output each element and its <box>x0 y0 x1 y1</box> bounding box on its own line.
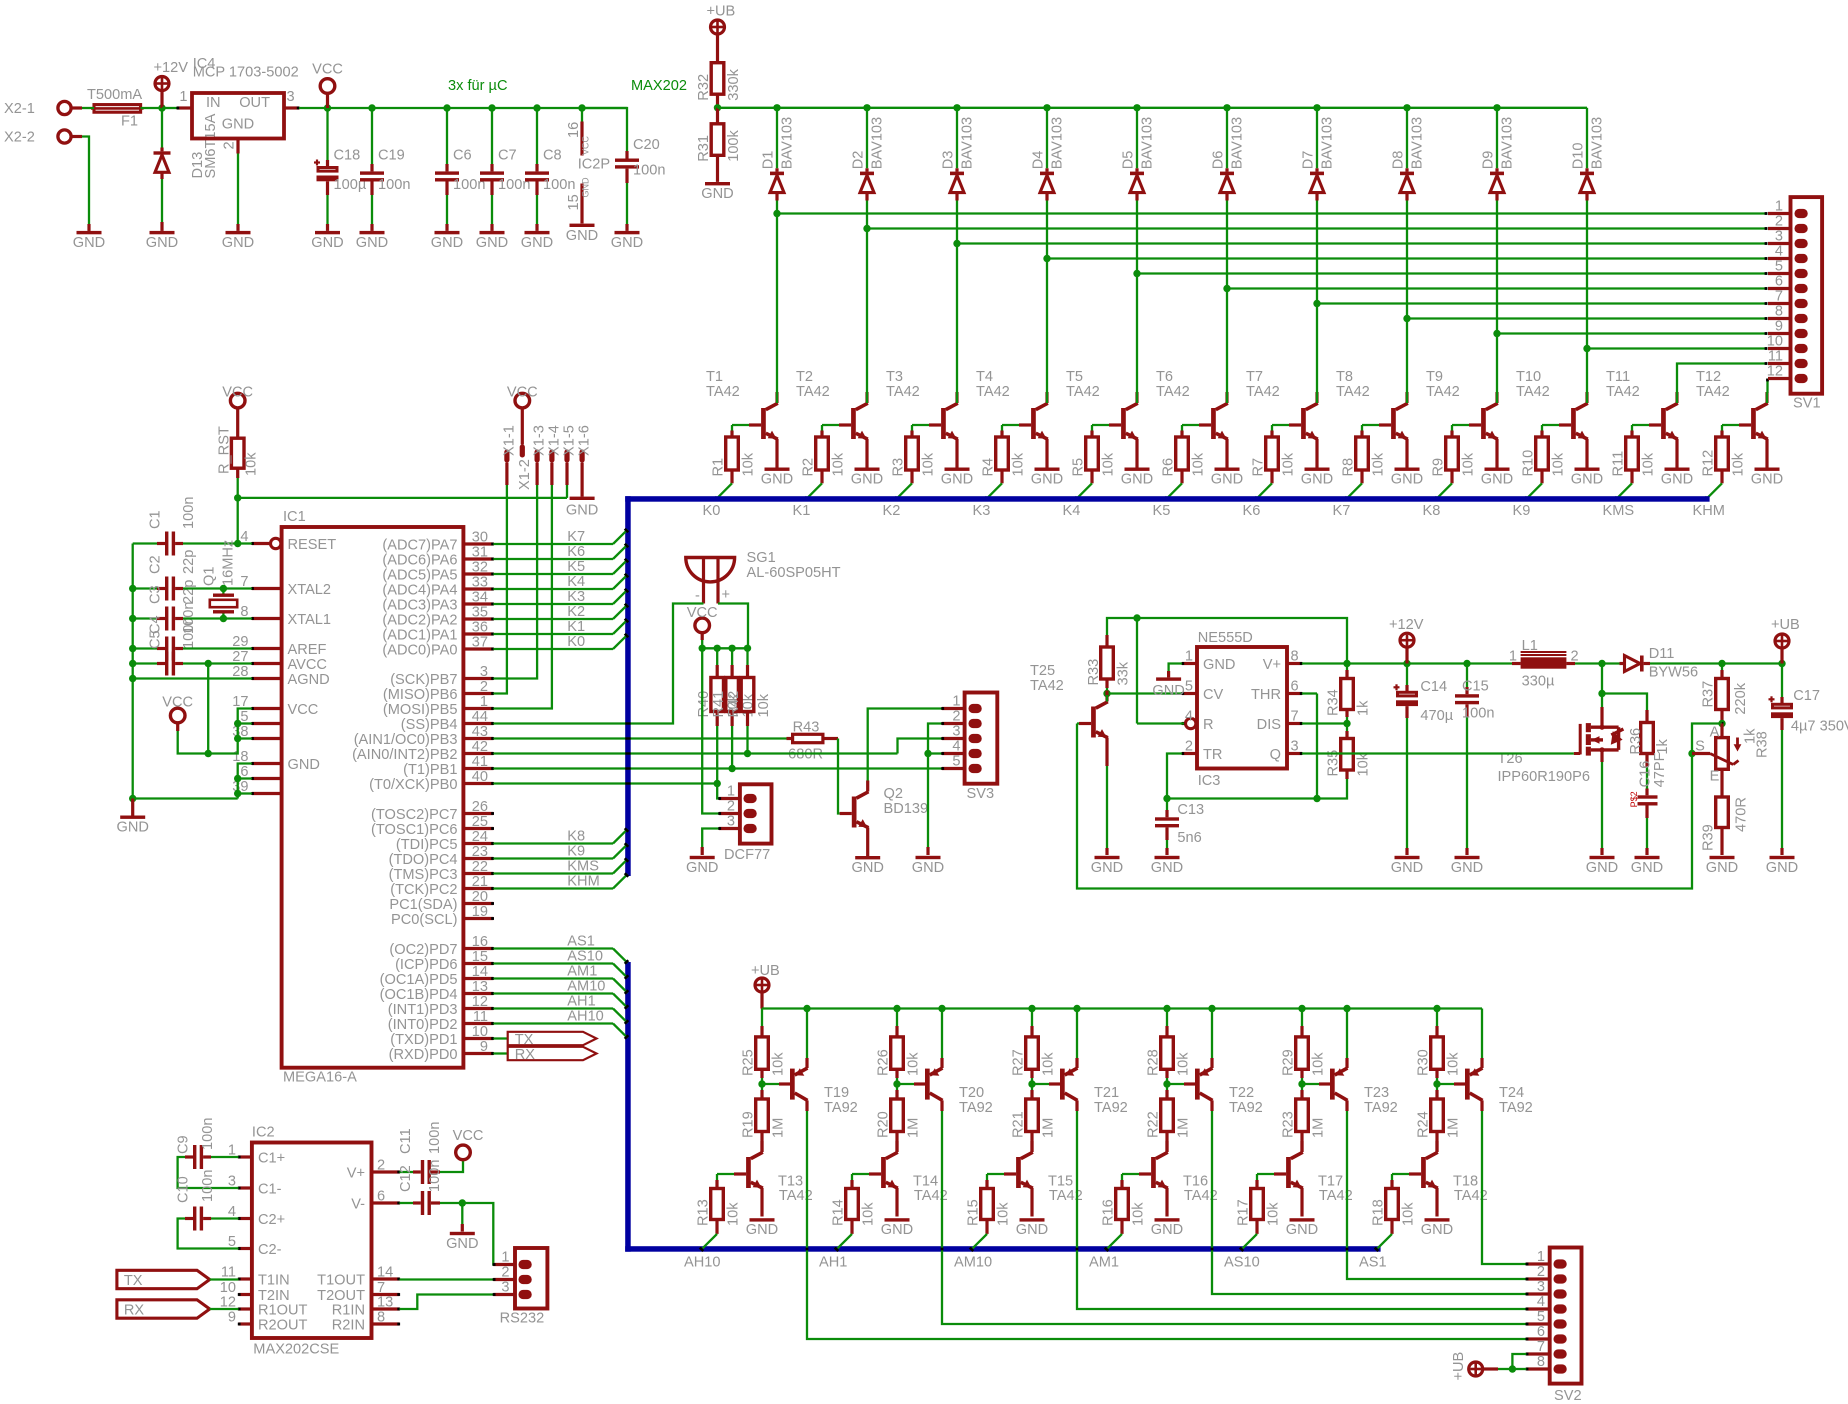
svg-text:GND: GND <box>288 757 320 773</box>
svg-text:R1: R1 <box>711 458 727 477</box>
resistor R_RST 10k <box>217 385 260 479</box>
bus A vertical <box>625 962 631 1252</box>
svg-text:F1: F1 <box>121 114 138 130</box>
svg-text:K0: K0 <box>567 634 585 650</box>
svg-text:5: 5 <box>1185 679 1193 695</box>
wire T25 emitter to GND <box>1106 766 1108 855</box>
svg-text:GND: GND <box>1481 471 1513 487</box>
svg-text:6: 6 <box>377 1189 385 1205</box>
wire R6 to bus node K5 <box>1164 483 1182 501</box>
trimmer R38 1k <box>1692 724 1771 785</box>
ground GND T7 <box>1301 468 1333 488</box>
svg-text:K4: K4 <box>1063 503 1081 519</box>
svg-text:K8: K8 <box>1423 503 1441 519</box>
svg-text:35: 35 <box>472 605 488 621</box>
svg-text:(AIN0/INT2)PB2: (AIN0/INT2)PB2 <box>352 747 457 763</box>
svg-text:(ADC4)PA4: (ADC4)PA4 <box>382 582 457 598</box>
svg-text:K2: K2 <box>883 503 901 519</box>
svg-text:C8: C8 <box>543 148 562 164</box>
svg-text:BAV103: BAV103 <box>780 117 796 169</box>
svg-text:10k: 10k <box>740 452 756 476</box>
wire THR pin6 <box>1302 694 1317 799</box>
svg-text:R1OUT: R1OUT <box>258 1302 308 1318</box>
svg-text:47PF: 47PF <box>1652 752 1668 787</box>
svg-text:5n6: 5n6 <box>1177 830 1201 846</box>
svg-text:13: 13 <box>472 979 488 995</box>
svg-text:30: 30 <box>472 530 488 546</box>
connector pin X1-3 <box>532 425 548 485</box>
resistor R26 10k <box>876 1009 922 1085</box>
svg-text:R32: R32 <box>696 74 712 101</box>
svg-text:GND: GND <box>146 235 178 251</box>
wire diode D5 column to K row and T5 collector <box>1133 201 1140 393</box>
svg-text:IC2P: IC2P <box>578 157 610 173</box>
svg-text:TA92: TA92 <box>1094 1100 1128 1116</box>
supply +UB at SV2 <box>1451 1352 1516 1381</box>
node base junction T19 <box>758 1080 779 1087</box>
svg-text:K2: K2 <box>567 604 585 620</box>
resistor R34 1k <box>1326 664 1372 728</box>
svg-text:R25: R25 <box>741 1049 757 1076</box>
svg-text:9: 9 <box>480 1039 488 1055</box>
svg-text:SM6T15A: SM6T15A <box>203 113 219 178</box>
svg-text:6: 6 <box>1537 1324 1545 1340</box>
svg-text:GND: GND <box>431 235 463 251</box>
svg-text:GND: GND <box>1586 860 1618 876</box>
svg-text:GND: GND <box>222 117 254 133</box>
ground GND C13 <box>1151 856 1183 876</box>
wire diode D1 column to K row and T1 collector <box>773 201 780 393</box>
ground GND D13 <box>146 231 178 251</box>
svg-text:10k: 10k <box>1550 452 1566 476</box>
wire AS1 PD7 to bus <box>493 949 629 965</box>
wire V- node to GND <box>461 1203 463 1232</box>
wire R9 to bus node K8 <box>1434 483 1452 501</box>
svg-text:T8: T8 <box>1336 369 1353 385</box>
wire diode D9 column to K row and T9 collector <box>1493 201 1500 393</box>
supply +UB top <box>707 4 736 63</box>
wire X1-3 to PB7 <box>493 485 537 679</box>
svg-text:100n: 100n <box>1462 706 1494 722</box>
wire to +UB and C17 <box>1718 660 1785 667</box>
wire diode D10 column to K row and T10 collector <box>1583 201 1590 393</box>
svg-text:T21: T21 <box>1094 1085 1119 1101</box>
ground GND left rail <box>116 799 148 836</box>
capacitor C6 100n <box>435 108 485 231</box>
capacitor C8 100n <box>525 108 575 231</box>
svg-text:10k: 10k <box>920 452 936 476</box>
svg-text:VCC: VCC <box>581 135 591 155</box>
svg-text:C7: C7 <box>498 148 517 164</box>
wire SG1 minus to PB4 <box>493 604 703 724</box>
svg-text:RX: RX <box>515 1047 536 1063</box>
svg-text:GND: GND <box>881 1222 913 1238</box>
capacitor C15 100n <box>1455 664 1494 856</box>
svg-text:R38: R38 <box>1755 731 1771 758</box>
wire SV3 pin2 and pin4 to GND <box>924 724 942 856</box>
svg-text:GND: GND <box>1151 1222 1183 1238</box>
wire PB0 row <box>493 782 717 784</box>
svg-text:-: - <box>695 588 700 604</box>
svg-text:25: 25 <box>472 814 488 830</box>
transistor T20 TA92 <box>914 1058 993 1116</box>
svg-text:GND: GND <box>73 235 105 251</box>
wire XTAL2 row <box>183 585 252 592</box>
svg-text:220k: 220k <box>1733 682 1749 714</box>
capacitor C14 470u <box>1394 664 1454 856</box>
wire R12 to bus node KHM <box>1704 483 1722 501</box>
svg-text:SV3: SV3 <box>967 786 995 802</box>
svg-text:14: 14 <box>377 1265 393 1281</box>
svg-text:(TOSC1)PC6: (TOSC1)PC6 <box>371 822 458 838</box>
node K9 label <box>567 844 585 860</box>
diode D8 BAV103 <box>1391 108 1426 201</box>
svg-text:GND: GND <box>746 1222 778 1238</box>
svg-text:AM1: AM1 <box>1089 1255 1119 1271</box>
svg-text:RX: RX <box>124 1303 145 1319</box>
svg-text:GND: GND <box>1766 860 1798 876</box>
wire R17 to bus node AS10 <box>1239 1234 1257 1252</box>
wire R8 to bus node K7 <box>1344 483 1362 501</box>
node K5 label <box>567 559 585 575</box>
svg-text:C13: C13 <box>1177 802 1204 818</box>
ground GND T13 <box>746 1218 778 1238</box>
svg-text:K3: K3 <box>567 589 585 605</box>
svg-text:T20: T20 <box>959 1085 984 1101</box>
svg-text:GND: GND <box>116 820 148 836</box>
wire T6 collector stub <box>1226 392 1228 403</box>
wire R2 to bus node K1 <box>804 483 822 501</box>
ground GND C18 <box>311 231 343 251</box>
wire KHM to bus <box>493 872 629 888</box>
wire IC3 GND pin1 <box>1169 664 1182 678</box>
svg-text:AREF: AREF <box>288 642 327 658</box>
svg-text:(ADC3)PA3: (ADC3)PA3 <box>382 597 457 613</box>
wire K6 PA6 to bus <box>493 543 629 559</box>
svg-text:VCC: VCC <box>507 385 538 401</box>
svg-text:2: 2 <box>480 679 488 695</box>
wire GND rail left of IC1 <box>129 544 238 803</box>
wire V- node to RS232 pin1 <box>462 1203 515 1265</box>
node KHM label <box>1693 503 1725 519</box>
svg-text:CV: CV <box>1203 687 1224 703</box>
ground GND T9 <box>1481 468 1513 488</box>
transistor T2 TA42 <box>796 369 868 468</box>
wire AM1 PD5 to bus <box>493 979 629 995</box>
wire drain node to R36 <box>1602 694 1647 711</box>
svg-text:10k: 10k <box>1190 452 1206 476</box>
svg-text:2: 2 <box>1185 739 1193 755</box>
svg-text:10: 10 <box>1767 334 1783 350</box>
wire R16 to bus node AM1 <box>1104 1234 1122 1252</box>
capacitor C2 22p <box>133 550 197 601</box>
svg-text:7: 7 <box>1291 709 1299 725</box>
svg-text:100k: 100k <box>726 129 742 161</box>
resistor R39 470R <box>1701 769 1750 855</box>
label MAX202 <box>631 78 687 94</box>
capacitor C9 100n <box>176 1118 239 1169</box>
svg-text:AS1: AS1 <box>567 934 595 950</box>
wire VCC rail with junctions <box>299 104 627 111</box>
svg-text:10k: 10k <box>905 1052 921 1076</box>
svg-text:R33: R33 <box>1086 659 1102 686</box>
resistor R5 10k <box>1071 425 1117 483</box>
svg-text:470µ: 470µ <box>1420 708 1453 724</box>
svg-text:3: 3 <box>1291 739 1299 755</box>
svg-text:3: 3 <box>727 814 735 830</box>
svg-text:(RXD)PD0: (RXD)PD0 <box>389 1047 458 1063</box>
wire T5 collector stub <box>1136 392 1138 403</box>
svg-text:10k: 10k <box>725 1202 741 1226</box>
wire T8 collector stub <box>1406 392 1408 403</box>
svg-text:(ADC1)PA1: (ADC1)PA1 <box>382 627 457 643</box>
svg-text:PC0(SCL): PC0(SCL) <box>391 912 458 928</box>
svg-text:3: 3 <box>501 1280 509 1296</box>
svg-text:T4: T4 <box>976 369 993 385</box>
ground GND T3 <box>941 468 973 488</box>
wire T19 emitter to +UB rail <box>806 1009 808 1059</box>
svg-text:BD139: BD139 <box>884 801 929 817</box>
ground GND C20 <box>611 231 643 251</box>
svg-text:X1-4: X1-4 <box>546 425 562 456</box>
svg-text:K5: K5 <box>567 559 585 575</box>
svg-text:Q2: Q2 <box>884 786 903 802</box>
svg-text:4µ7 350V: 4µ7 350V <box>1791 719 1848 735</box>
svg-text:R5: R5 <box>1071 458 1087 477</box>
transistor T26 IPP60R190P6 MOSFET <box>1498 694 1624 856</box>
svg-text:TA42: TA42 <box>1066 384 1100 400</box>
ground GND T4 <box>1031 468 1063 488</box>
svg-text:TA42: TA42 <box>1606 384 1640 400</box>
svg-text:TA42: TA42 <box>1696 384 1730 400</box>
svg-text:1M: 1M <box>1175 1118 1191 1138</box>
resistor R21 1M <box>1011 1084 1057 1152</box>
wire T9 collector stub <box>1496 392 1498 403</box>
connector pin X2-2 <box>4 130 82 146</box>
wire DCF77 pin3 to GND <box>702 829 719 856</box>
svg-text:R16: R16 <box>1101 1199 1117 1226</box>
svg-text:100n: 100n <box>427 1160 443 1192</box>
svg-text:TA42: TA42 <box>1246 384 1280 400</box>
svg-text:23: 23 <box>472 844 488 860</box>
resistor R18 10k <box>1371 1174 1417 1234</box>
svg-text:GND: GND <box>1751 471 1783 487</box>
flag TX to IC2 <box>117 1270 238 1289</box>
svg-text:10k: 10k <box>756 693 772 717</box>
svg-text:C10: C10 <box>176 1176 192 1203</box>
svg-text:C6: C6 <box>453 148 472 164</box>
resistor R22 1M <box>1146 1084 1192 1152</box>
svg-text:8: 8 <box>1775 304 1783 320</box>
ground GND T12 <box>1751 468 1783 488</box>
svg-text:TX: TX <box>515 1032 534 1048</box>
svg-text:5: 5 <box>952 754 960 770</box>
wire VCC net to IC1 pins 17 5 38 and AVCC <box>178 664 252 758</box>
svg-text:43: 43 <box>472 724 488 740</box>
resistor R24 1M <box>1416 1084 1462 1152</box>
svg-text:X1-5: X1-5 <box>562 425 578 456</box>
svg-text:1: 1 <box>480 694 488 710</box>
diode D10 BAV103 <box>1571 108 1606 201</box>
wire T21 emitter to +UB rail <box>1076 1009 1078 1059</box>
svg-text:GND: GND <box>222 235 254 251</box>
node KMS label <box>1603 503 1635 519</box>
ground GND T25 <box>1091 856 1123 876</box>
svg-text:C20: C20 <box>633 137 660 153</box>
wire SV1 row 7 <box>1317 302 1768 305</box>
resistor R8 10k <box>1341 425 1387 483</box>
svg-text:TA92: TA92 <box>824 1100 858 1116</box>
svg-text:26: 26 <box>472 799 488 815</box>
svg-text:R13: R13 <box>696 1199 712 1226</box>
svg-text:GND: GND <box>566 503 598 519</box>
wire C10 to C2- pin5 <box>178 1219 239 1249</box>
svg-text:100n: 100n <box>200 1170 216 1202</box>
wire feedback rail T25 base <box>1077 724 1692 889</box>
ground GND IC2 <box>446 1232 478 1252</box>
fuse F1 T500mA <box>87 87 144 130</box>
svg-text:T6: T6 <box>1156 369 1173 385</box>
svg-text:BAV103: BAV103 <box>1140 117 1156 169</box>
ground GND T1 <box>761 468 793 488</box>
wire SV1 row 8 <box>1407 317 1768 320</box>
svg-text:16MHz: 16MHz <box>221 540 237 586</box>
node K6 label <box>567 544 585 560</box>
connector RS232 <box>493 1248 548 1327</box>
svg-text:OUT: OUT <box>239 95 270 111</box>
svg-text:2: 2 <box>1537 1264 1545 1280</box>
wire T12 collector stub <box>1766 392 1768 403</box>
resistor R7 10k <box>1251 425 1297 483</box>
svg-text:TA42: TA42 <box>1516 384 1550 400</box>
svg-text:R34: R34 <box>1326 689 1342 716</box>
ground GND T26 <box>1586 856 1618 876</box>
svg-text:K7: K7 <box>1333 503 1351 519</box>
svg-text:GND: GND <box>1706 860 1738 876</box>
svg-text:RS232: RS232 <box>500 1311 545 1327</box>
svg-text:K4: K4 <box>567 574 585 590</box>
svg-text:BAV103: BAV103 <box>870 117 886 169</box>
svg-text:VCC: VCC <box>453 1128 484 1144</box>
svg-text:(ADC7)PA7: (ADC7)PA7 <box>382 537 457 553</box>
svg-text:1M: 1M <box>770 1118 786 1138</box>
svg-text:A: A <box>1710 724 1720 740</box>
capacitor C3 22p <box>133 580 197 631</box>
svg-text:XTAL2: XTAL2 <box>288 582 332 598</box>
transistor T7 TA42 <box>1246 369 1318 468</box>
svg-text:5: 5 <box>1537 1309 1545 1325</box>
svg-text:(ADC5)PA5: (ADC5)PA5 <box>382 567 457 583</box>
node K9 label <box>1513 503 1531 519</box>
wire AS10 PD6 to bus <box>493 964 629 980</box>
svg-text:10k: 10k <box>1730 452 1746 476</box>
svg-text:R39: R39 <box>1701 824 1717 851</box>
svg-text:10k: 10k <box>995 1202 1011 1226</box>
svg-text:(INT0)PD2: (INT0)PD2 <box>388 1017 458 1033</box>
svg-text:6: 6 <box>1291 679 1299 695</box>
svg-text:K1: K1 <box>793 503 811 519</box>
node K8 label <box>567 829 585 845</box>
svg-text:BAV103: BAV103 <box>960 117 976 169</box>
svg-text:R12: R12 <box>1701 450 1717 477</box>
svg-text:R26: R26 <box>876 1049 892 1076</box>
svg-text:42: 42 <box>472 739 488 755</box>
svg-text:AM10: AM10 <box>567 979 605 995</box>
svg-text:16: 16 <box>472 934 488 950</box>
transistor T1 TA42 <box>706 369 778 468</box>
wire SV1 row 9 <box>1497 332 1768 335</box>
node K1 label <box>793 503 811 519</box>
svg-text:AVCC: AVCC <box>288 657 327 673</box>
svg-text:GND: GND <box>1203 657 1235 673</box>
ground GND C16 <box>1631 856 1663 876</box>
svg-text:BAV103: BAV103 <box>1230 117 1246 169</box>
wire AM10 PD4 to bus <box>493 994 629 1010</box>
svg-text:IPP60R190P6: IPP60R190P6 <box>1498 769 1591 785</box>
svg-text:D11: D11 <box>1649 646 1675 662</box>
capacitor C12 100n V- <box>398 1160 466 1215</box>
svg-text:10k: 10k <box>1280 452 1296 476</box>
svg-text:BAV103: BAV103 <box>1320 117 1336 169</box>
resistor R36 1k <box>1628 710 1671 789</box>
svg-text:R2: R2 <box>801 458 817 477</box>
transistor T13 TA42 <box>734 1141 813 1217</box>
svg-text:SV1: SV1 <box>1793 396 1821 412</box>
svg-text:X2-1: X2-1 <box>4 101 35 117</box>
wire R43 to Q2 base <box>838 739 840 814</box>
ground GND IC3 <box>1152 677 1184 699</box>
svg-text:3x für µC: 3x für µC <box>448 78 508 94</box>
svg-text:R2IN: R2IN <box>332 1317 365 1333</box>
svg-text:AS10: AS10 <box>1224 1255 1260 1271</box>
svg-text:R30: R30 <box>1416 1049 1432 1076</box>
svg-text:BAV103: BAV103 <box>1410 117 1426 169</box>
node AS10 label <box>1224 1255 1260 1271</box>
svg-text:C17: C17 <box>1793 688 1820 704</box>
svg-text:(SCK)PB7: (SCK)PB7 <box>390 672 457 688</box>
resistor R10 10k <box>1521 425 1567 483</box>
svg-text:C1+: C1+ <box>258 1150 285 1166</box>
svg-text:AL-60SP05HT: AL-60SP05HT <box>747 565 841 581</box>
node AM1 label <box>1089 1255 1119 1271</box>
svg-text:TA42: TA42 <box>1156 384 1190 400</box>
svg-text:8: 8 <box>1537 1354 1545 1370</box>
diode D2 BAV103 <box>851 108 886 201</box>
svg-text:R19: R19 <box>741 1111 757 1138</box>
wire T4 collector stub <box>1046 392 1048 403</box>
wire PB2 to SV3 pin3 <box>493 739 942 754</box>
svg-text:AH1: AH1 <box>567 994 595 1010</box>
ground GND X1-6 <box>566 485 598 519</box>
svg-text:(ADC2)PA2: (ADC2)PA2 <box>382 612 457 628</box>
node K2 label <box>567 604 585 620</box>
svg-text:V+: V+ <box>1263 657 1281 673</box>
svg-text:TA42: TA42 <box>976 384 1010 400</box>
ground GND R31 <box>701 182 733 202</box>
svg-text:AH10: AH10 <box>567 1009 604 1025</box>
wire T23 emitter to +UB rail <box>1346 1009 1348 1059</box>
wire R3 to bus node K2 <box>894 483 912 501</box>
resistor R35 10k <box>1163 724 1371 803</box>
svg-text:R40: R40 <box>696 691 712 718</box>
svg-text:(TXD)PD1: (TXD)PD1 <box>390 1032 457 1048</box>
resistor R15 10k <box>966 1174 1012 1234</box>
resistor R41 10k <box>711 648 757 772</box>
flag RX to IC2 <box>117 1300 238 1319</box>
svg-text:10k: 10k <box>1310 1052 1326 1076</box>
capacitor C1 100n <box>133 497 238 556</box>
svg-text:TA92: TA92 <box>959 1100 993 1116</box>
